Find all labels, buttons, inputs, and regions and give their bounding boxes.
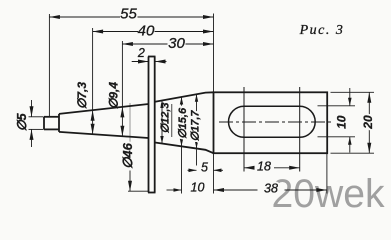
node dimension d7.3: [92, 28, 94, 134]
svg-text:∅46: ∅46: [120, 142, 135, 169]
node dimension d46: [129, 103, 131, 147]
svg-text:2: 2: [137, 46, 145, 60]
svg-text:38: 38: [264, 182, 278, 196]
node dimension 30: [122, 43, 167, 45]
wire taper top edge: [59, 104, 149, 114]
node dimension 18: [244, 167, 253, 169]
node dimension 40: [93, 31, 138, 33]
node dimension 38: [214, 189, 258, 191]
svg-text:∅15,6: ∅15,6: [177, 107, 189, 139]
wire extension lines for body height 20: [331, 91, 375, 93]
wire extension lines for slot width 10: [318, 105, 356, 107]
wire horizontal centerline: [219, 121, 334, 123]
svg-text:10: 10: [335, 115, 349, 129]
node dimension 5: [188, 169, 197, 171]
svg-text:∅5: ∅5: [15, 112, 29, 131]
node dimension d12.3: [161, 101, 163, 144]
wire extension line at d15.6 for dim 10: [181, 147, 183, 194]
node flange right edge: [154, 57, 156, 193]
wire extension line at body right edge (bottom): [326, 154, 328, 194]
svg-text:30: 30: [168, 35, 185, 52]
node slot outline: [228, 106, 315, 137]
wire taper bottom edge: [59, 132, 149, 138]
node step face: [58, 114, 60, 132]
node body outline: [214, 92, 328, 153]
svg-text:∅7,3: ∅7,3: [75, 82, 89, 109]
wire extension line at body left edge (top): [213, 14, 215, 93]
wire cone top edge: [155, 92, 214, 102]
node dimension 55: [49, 16, 120, 18]
wire extension line at d17.7 for dim 5: [196, 150, 198, 166]
wire cone bottom edge: [155, 143, 214, 154]
wire extension line at body left edge (bottom): [213, 154, 215, 194]
node dimension 10 right: [349, 88, 351, 106]
wire stub bottom edge: [44, 128, 59, 130]
svg-text:20: 20: [361, 115, 375, 130]
wire slot right center mark: [299, 87, 301, 172]
node dimension d9.4: [121, 41, 123, 136]
svg-text:20wek: 20wek: [272, 172, 386, 216]
svg-text:40: 40: [138, 22, 155, 39]
svg-text:∅12,3: ∅12,3: [160, 103, 172, 134]
node dimension d15.6: [181, 97, 183, 146]
wire flange top cap: [148, 56, 156, 58]
wire extension lines for d5: [29, 116, 44, 118]
node dimension d17.7: [196, 94, 198, 148]
wire stub top edge: [44, 116, 59, 118]
svg-text:5: 5: [201, 161, 208, 175]
wire extension line for 55: [48, 14, 50, 117]
node dimension 2: [132, 61, 149, 63]
svg-text:10: 10: [191, 180, 205, 194]
node dimension 10 bottom: [167, 189, 182, 191]
svg-text:18: 18: [257, 160, 271, 174]
node flange left edge: [148, 57, 150, 193]
svg-text:∅17,7: ∅17,7: [190, 110, 202, 142]
node shaft end face (d5 stub): [43, 117, 45, 130]
svg-text:∅9,4: ∅9,4: [107, 82, 121, 109]
node dimension 20: [368, 92, 370, 153]
wire slot left center mark: [243, 87, 245, 172]
svg-text:Рис. 3: Рис. 3: [299, 23, 345, 38]
wire extension line for d46: [128, 190, 148, 192]
wire flange bottom cap: [148, 192, 156, 194]
node dimension d5: [31, 100, 33, 117]
svg-text:55: 55: [120, 6, 137, 23]
